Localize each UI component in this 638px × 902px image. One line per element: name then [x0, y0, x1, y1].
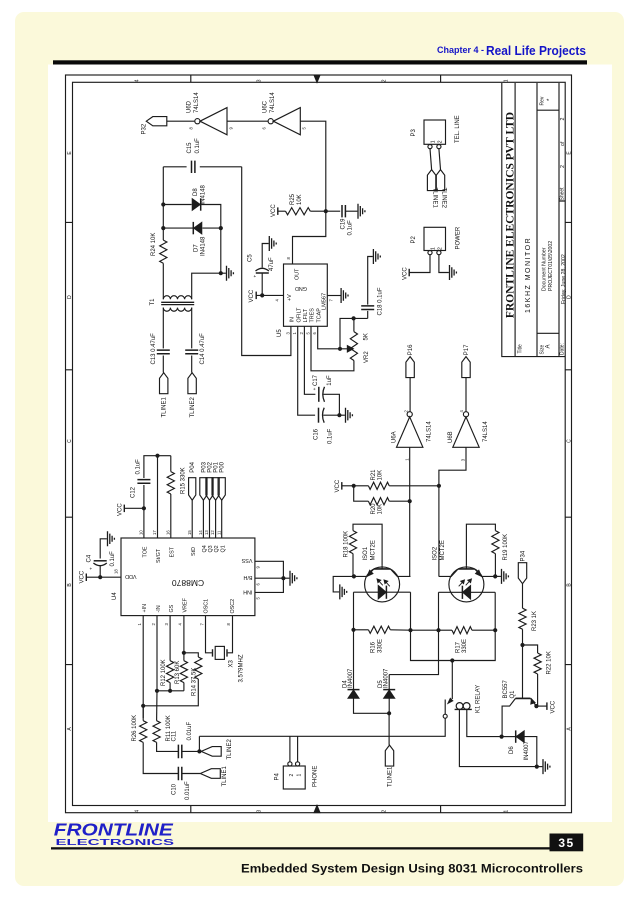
svg-text:VR2: VR2: [364, 351, 370, 363]
U5 pin 8 wire to R25 node: [293, 211, 326, 264]
svg-text:Chapter 4 -: Chapter 4 -: [437, 45, 484, 55]
svg-text:EST: EST: [169, 546, 175, 557]
svg-text:R17: R17: [455, 641, 461, 653]
svg-text:Title: Title: [518, 344, 524, 353]
svg-text:R15 330K: R15 330K: [181, 467, 187, 494]
svg-text:0.01uF: 0.01uF: [185, 781, 191, 800]
capacitor C14 0.47uF: [185, 350, 198, 354]
page number box: [550, 834, 584, 852]
svg-text:C11: C11: [171, 730, 177, 741]
wire R24 to T1: [162, 263, 164, 299]
svg-text:C10: C10: [172, 783, 178, 795]
svg-text:Sheet: Sheet: [560, 187, 566, 201]
svg-text:2: 2: [438, 247, 444, 250]
VCC at P2: [408, 269, 410, 277]
connector P2: [424, 227, 446, 250]
relay K1 coil: [456, 703, 463, 710]
resistor R15 330K: [170, 456, 172, 472]
svg-text:Q4: Q4: [202, 545, 208, 552]
connector P4 PHONE: [283, 766, 305, 789]
svg-text:U6D: U6D: [186, 100, 192, 113]
svg-text:+V: +V: [287, 294, 293, 301]
wire ISO2 base to R19: [466, 524, 495, 565]
ground C5: [262, 244, 269, 268]
svg-text:A: A: [546, 344, 552, 348]
wire R25 node to C19: [326, 210, 340, 212]
svg-text:TLINE1: TLINE1: [222, 765, 228, 786]
svg-text:TCAP: TCAP: [316, 308, 322, 323]
svg-text:13: 13: [204, 530, 209, 535]
svg-text:FRONTLINE ELECTRONICS PVT LTD: FRONTLINE ELECTRONICS PVT LTD: [505, 112, 517, 318]
node StGT R15: [155, 454, 159, 458]
wire ISO1 base to R18: [353, 524, 382, 565]
node C16 C17 ground: [337, 413, 341, 417]
svg-text:U6A: U6A: [392, 431, 398, 443]
svg-text:0.01uF: 0.01uF: [187, 721, 193, 740]
connector P3: [424, 120, 446, 144]
wire D8 row: [163, 204, 191, 206]
ground C4: [100, 539, 107, 559]
resistor R23 1K: [519, 608, 526, 629]
svg-text:Rev: Rev: [540, 96, 546, 105]
port P34: [518, 563, 526, 584]
wire R16 to R17: [411, 629, 439, 631]
svg-text:R12 100K: R12 100K: [161, 659, 167, 686]
svg-text:1: 1: [430, 247, 436, 250]
wires Q4-Q1 to ports: [202, 500, 204, 538]
svg-text:5K: 5K: [363, 333, 369, 340]
ground C19: [345, 210, 357, 212]
svg-text:Q1: Q1: [220, 545, 226, 552]
svg-text:0.1uF: 0.1uF: [195, 138, 201, 154]
port TLINE1 top: [160, 373, 168, 394]
svg-text:C16: C16: [314, 428, 320, 440]
resistor R11 100K: [156, 691, 158, 721]
svg-text:R24 10K: R24 10K: [151, 233, 157, 256]
svg-text:P17: P17: [464, 344, 470, 355]
capacitor C18 0.1uF: [367, 311, 369, 319]
svg-text:VCC: VCC: [271, 204, 277, 217]
svg-text:47uF: 47uF: [269, 257, 275, 271]
svg-text:D: D: [567, 295, 573, 299]
svg-text:1: 1: [430, 140, 436, 143]
footer rule: [51, 847, 550, 849]
svg-text:U6C: U6C: [263, 100, 269, 113]
wire -IN row: [157, 690, 184, 692]
svg-text:VCC: VCC: [249, 289, 255, 302]
svg-text:VCC: VCC: [117, 503, 123, 516]
wire P3 pin1 to TLINE1 port: [430, 149, 432, 170]
resistor R24 10K: [160, 240, 167, 263]
inverter U6C: [268, 119, 273, 124]
capacitor C12 0.1uF: [137, 480, 150, 484]
wire TOE C12 column: [143, 485, 145, 538]
wire C13 to TLINE1 port: [162, 356, 164, 373]
svg-text:PHONE: PHONE: [313, 766, 319, 787]
ground D7 D8 T1: [221, 272, 226, 274]
wire wiper node to VR2 top and C18: [340, 318, 368, 348]
svg-text:330E: 330E: [377, 639, 383, 653]
svg-text:C13 0.47uF: C13 0.47uF: [151, 333, 157, 365]
node D7 right: [219, 226, 223, 230]
resistor R20 10K: [354, 486, 369, 501]
resistor R17 330E: [439, 629, 453, 631]
wire R21 node to ISO2 collector: [438, 486, 440, 577]
port P17: [462, 357, 470, 378]
svg-text:10K: 10K: [378, 470, 384, 481]
svg-text:GS: GS: [169, 604, 175, 612]
resistor R22 10K: [523, 645, 538, 653]
node R16 left: [351, 628, 355, 632]
svg-text:VDD: VDD: [125, 573, 136, 579]
node VR2 top: [352, 316, 356, 320]
wire P17 to U6B: [465, 378, 467, 412]
svg-text:R14 37.5K: R14 37.5K: [192, 668, 198, 696]
svg-text:D7: D7: [194, 244, 200, 252]
wire phone line long: [198, 736, 200, 751]
svg-text:35: 35: [558, 836, 574, 850]
wire C15 to U5 pin3: [242, 167, 291, 356]
node ISO1 emitter: [352, 574, 356, 578]
svg-text:C14 0.47uF: C14 0.47uF: [200, 333, 206, 365]
port P04: [189, 478, 196, 501]
svg-text:IN4007: IN4007: [384, 668, 390, 688]
svg-text:X3: X3: [229, 659, 235, 667]
optocoupler ISO1 MCT2E: [365, 567, 400, 602]
svg-text:330E: 330E: [462, 639, 468, 653]
svg-text:4: 4: [135, 79, 141, 82]
potentiometer VR2 5K: [353, 318, 355, 331]
svg-text:BC557: BC557: [503, 679, 509, 698]
ground U4 right pins: [290, 571, 297, 586]
svg-text:-IN: -IN: [156, 605, 162, 612]
resistor R18 100K: [349, 531, 356, 554]
wire U6B input to R21 node: [439, 447, 466, 486]
wire ISO1 LED cathode to R16 row: [410, 592, 412, 630]
svg-text:14: 14: [198, 530, 203, 535]
svg-text:1: 1: [504, 810, 510, 813]
svg-text:C5: C5: [248, 254, 254, 262]
svg-text:C: C: [67, 439, 73, 443]
wire U5 LFILT to C17: [304, 326, 315, 394]
svg-text:ISO1: ISO1: [363, 546, 369, 560]
wire ISO2 LED cathode to R17 row: [438, 592, 440, 630]
svg-text:18: 18: [114, 569, 119, 574]
svg-text:Q1: Q1: [510, 690, 516, 699]
svg-text:1: 1: [504, 79, 510, 82]
svg-text:+IN: +IN: [142, 604, 148, 613]
svg-text:12: 12: [210, 530, 215, 535]
svg-text:TLINE2: TLINE2: [190, 396, 196, 417]
wire U5 TRES to VR2: [311, 326, 354, 371]
svg-text:2: 2: [560, 118, 566, 121]
port TLINE bottom: [385, 745, 393, 766]
svg-text:74LS14: 74LS14: [427, 421, 433, 442]
capacitor C11 0.01uF: [178, 745, 181, 759]
svg-text:TEL. LINE: TEL. LINE: [455, 115, 461, 143]
svg-text:Q2: Q2: [214, 545, 220, 552]
svg-text:TLINE1: TLINE1: [162, 396, 168, 417]
node ISO2 emitter: [493, 574, 497, 578]
node TOE VCC: [142, 506, 146, 510]
node relay arm: [450, 658, 454, 662]
frame zone ticks bottom: [191, 806, 441, 813]
VCC at Q1: [536, 705, 546, 707]
inverter U6B: [463, 412, 468, 417]
svg-text:INH: INH: [243, 588, 252, 594]
node D4 D5 TLINE: [387, 711, 391, 715]
diode D5 IN4007: [388, 675, 390, 689]
ground C16 C17: [339, 414, 345, 416]
header rule: [53, 60, 587, 64]
wire T1 right to ground node: [192, 273, 221, 299]
svg-text:VCC: VCC: [335, 479, 341, 492]
svg-text:D6: D6: [509, 746, 515, 754]
node C5: [260, 293, 264, 297]
resistor R12 100K: [169, 616, 171, 661]
svg-text:C19: C19: [340, 218, 346, 230]
svg-text:LM567: LM567: [321, 293, 327, 310]
capacitor C16 0.1uF: [318, 408, 320, 423]
capacitor C19 0.1uF: [342, 205, 345, 217]
svg-text:Friday, June 28, 2002: Friday, June 28, 2002: [561, 254, 567, 304]
svg-text:St/GT: St/GT: [156, 548, 162, 563]
crystal X3: [206, 616, 212, 653]
capacitor C15: [192, 161, 195, 173]
node R23 R22 Q1 base: [520, 643, 524, 647]
svg-text:C12: C12: [130, 486, 136, 498]
ground ISO1: [333, 576, 354, 592]
svg-text:R26 100K: R26 100K: [132, 715, 138, 742]
diode D6 IN4007: [502, 736, 515, 738]
svg-text:0.1uF: 0.1uF: [136, 459, 142, 475]
border frame: [66, 75, 572, 813]
wire P3 pin2 to TLINE2 port: [439, 149, 441, 170]
svg-text:C: C: [567, 439, 573, 443]
svg-text:TOE: TOE: [143, 546, 149, 557]
svg-text:C4: C4: [87, 554, 93, 562]
svg-text:+: +: [253, 275, 258, 278]
svg-text:3.579MHZ: 3.579MHZ: [238, 654, 244, 682]
resistor R14 37.5K: [184, 653, 198, 657]
svg-text:+: +: [312, 387, 317, 390]
svg-text:VREF: VREF: [183, 597, 189, 612]
svg-text:OUT: OUT: [295, 268, 301, 280]
U4 right pins to ground: [255, 561, 284, 592]
svg-text:R18 100K: R18 100K: [343, 531, 349, 558]
node TLINE2 C11: [197, 749, 201, 753]
diode D7: [192, 222, 194, 234]
svg-text:U4: U4: [112, 592, 118, 600]
svg-text:+: +: [88, 567, 93, 570]
wire D5 top jog to R17 node: [389, 630, 438, 674]
diode D4 IN4007: [353, 630, 355, 689]
svg-text:1uF: 1uF: [327, 375, 333, 386]
svg-text:K1 RELAY: K1 RELAY: [475, 685, 481, 713]
svg-text:VCC: VCC: [551, 700, 557, 713]
svg-text:VCC: VCC: [79, 570, 85, 583]
wire P2 pin1 to VCC: [410, 255, 431, 273]
svg-text:TLINE2: TLINE2: [440, 188, 446, 209]
svg-text:IN: IN: [290, 317, 296, 322]
svg-text:4: 4: [135, 810, 141, 813]
svg-text:GND: GND: [295, 285, 307, 291]
svg-text:D: D: [67, 295, 73, 299]
svg-text:74LS14: 74LS14: [194, 92, 200, 113]
node relay coil D6 Q1: [500, 735, 504, 739]
wire R16 node to relay arm: [411, 630, 453, 660]
wire left rail x163: [162, 167, 164, 240]
schematic sheet: [48, 65, 612, 823]
svg-text:D8: D8: [193, 188, 199, 196]
transistor Q1 BC557: [522, 645, 524, 698]
port TLINE1 at P3: [427, 170, 435, 191]
svg-text:10K: 10K: [378, 504, 384, 515]
svg-text:IN4007: IN4007: [348, 668, 354, 688]
node R14 top: [182, 651, 186, 655]
svg-text:P03: P03: [201, 461, 207, 472]
wire StD to P04: [191, 500, 193, 538]
svg-text:R20: R20: [371, 503, 377, 515]
svg-text:P2: P2: [411, 235, 417, 243]
svg-text:OSC1: OSC1: [203, 599, 209, 614]
capacitor C4 0.1uF: [99, 566, 101, 578]
wire relay contact to phone line: [199, 718, 445, 736]
svg-text:11: 11: [216, 530, 221, 535]
svg-text:R19 100K: R19 100K: [503, 534, 509, 561]
svg-text:P16: P16: [408, 344, 414, 355]
svg-text:2: 2: [289, 774, 295, 777]
svg-text:Date:: Date:: [560, 343, 566, 355]
ground C18: [373, 249, 380, 264]
svg-text:P4: P4: [275, 772, 281, 780]
node R16 right: [408, 628, 412, 632]
svg-text:0.1uF: 0.1uF: [110, 551, 116, 567]
svg-text:T1: T1: [150, 298, 156, 306]
inverter U6D: [195, 119, 200, 124]
wire T1 right to C14: [191, 308, 193, 349]
wire P34 to R23: [522, 584, 524, 609]
wire T1 left to C13: [162, 308, 164, 349]
svg-text:1: 1: [297, 774, 303, 777]
wire ISO2 LED anode: [494, 592, 496, 630]
port TLINE2 top: [188, 373, 196, 394]
node R20 U6A: [408, 499, 412, 503]
port P32: [146, 117, 167, 126]
ground ISO2: [495, 575, 501, 577]
svg-text:2: 2: [382, 810, 388, 813]
svg-text:R22 10K: R22 10K: [546, 651, 552, 674]
wire D7 to ground: [220, 228, 222, 273]
svg-text:TRES: TRES: [310, 308, 316, 323]
frame zone ticks right: [565, 222, 571, 664]
optocoupler ISO2 MCT2E: [449, 567, 484, 602]
wire U5 OFILT to C16: [298, 326, 315, 415]
svg-text:R25: R25: [290, 193, 296, 205]
svg-text:Real Life Projects: Real Life Projects: [486, 43, 586, 58]
port TLINE2 at P3: [436, 170, 444, 191]
svg-text:74LS14: 74LS14: [483, 421, 489, 442]
resistor R21 10K: [354, 485, 369, 487]
relay K1 contact: [451, 661, 453, 700]
svg-text:U6B: U6B: [448, 431, 454, 443]
ground relay coil D6: [537, 766, 543, 768]
svg-text:VSS: VSS: [241, 557, 252, 563]
svg-text:FRONTLINE: FRONTLINE: [54, 819, 175, 839]
frame zone ticks left: [66, 222, 73, 664]
inverter U6A: [407, 412, 412, 417]
node R17 right: [493, 628, 497, 632]
svg-text:P32: P32: [141, 123, 147, 134]
node C4 VDD: [98, 575, 102, 579]
wire U6A input down: [409, 447, 411, 576]
svg-text:P02: P02: [208, 461, 214, 472]
svg-text:R16: R16: [371, 641, 377, 653]
port P16: [406, 357, 414, 378]
node D8 left: [161, 202, 165, 206]
wire D7 row: [163, 227, 193, 229]
svg-text:2: 2: [438, 140, 444, 143]
svg-text:R13 60K: R13 60K: [175, 661, 181, 684]
svg-text:C15: C15: [187, 142, 193, 154]
wire P32 to U6D: [167, 120, 195, 122]
wire node to TLINE port: [388, 713, 390, 745]
op-amp U5 LM567 box: [284, 264, 328, 326]
svg-text:17: 17: [152, 530, 157, 535]
svg-text:0.1uF: 0.1uF: [328, 428, 334, 444]
wire coil right to D6 node: [467, 709, 502, 736]
wire U4 pin2 column: [156, 616, 158, 691]
svg-text:3: 3: [257, 810, 263, 813]
svg-text:U5: U5: [277, 329, 283, 337]
wire coil left to ground: [459, 709, 536, 766]
svg-text:P00: P00: [220, 461, 226, 472]
IC U4 CM8870 box: [121, 538, 255, 616]
svg-text:OSC2: OSC2: [230, 599, 236, 614]
svg-text:P3: P3: [411, 128, 417, 136]
svg-text:of: of: [560, 141, 566, 146]
svg-text:R21: R21: [371, 469, 377, 481]
ground P2: [450, 265, 457, 280]
resistor R19 100K: [492, 531, 499, 554]
svg-text:PROJECT01\05\2002: PROJECT01\05\2002: [548, 241, 554, 291]
wire P2 pin2 to ground: [439, 255, 449, 273]
diode D8: [200, 198, 202, 210]
node R17 left: [436, 628, 440, 632]
svg-text:R23 1K: R23 1K: [532, 611, 538, 631]
title block: [502, 83, 565, 357]
wire C14 to TLINE2 port: [191, 356, 193, 373]
resistor R26 100K: [142, 706, 144, 721]
svg-text:StD: StD: [191, 547, 197, 556]
frame zone ticks top: [191, 75, 441, 82]
svg-text:P04: P04: [190, 461, 196, 472]
node VR2 wiper: [338, 347, 342, 351]
svg-text:Embedded System Design Using 8: Embedded System Design Using 8031 Microc…: [241, 862, 583, 876]
svg-text:16: 16: [165, 530, 170, 535]
wire C15 row: [163, 166, 186, 168]
svg-text:IN4148: IN4148: [201, 236, 207, 256]
svg-text:15: 15: [187, 530, 192, 535]
svg-text:C18 0.1uF: C18 0.1uF: [377, 287, 383, 315]
transformer T1: [163, 296, 191, 300]
node -IN R12: [155, 689, 159, 693]
svg-text:TLINE2: TLINE2: [227, 738, 233, 759]
wire P16 to U6A: [409, 378, 411, 412]
svg-text:OFILT: OFILT: [296, 307, 302, 323]
resistor R16 330E: [354, 629, 369, 631]
wire U6D to U6C: [227, 120, 268, 122]
